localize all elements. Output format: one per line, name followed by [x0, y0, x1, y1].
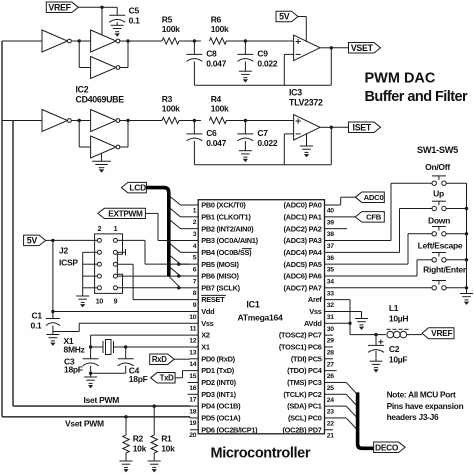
- svg-text:5: 5: [193, 255, 197, 262]
- svg-text:40: 40: [327, 208, 335, 215]
- svg-text:8MHz: 8MHz: [64, 345, 85, 355]
- svg-text:36: 36: [327, 255, 335, 262]
- svg-text:C9: C9: [257, 49, 268, 59]
- svg-text:Vss: Vss: [309, 307, 321, 316]
- svg-text:C5: C5: [129, 6, 140, 16]
- svg-text:Microcontroller: Microcontroller: [211, 446, 311, 462]
- svg-text:ATmega164: ATmega164: [237, 313, 283, 323]
- svg-text:0.1: 0.1: [129, 15, 141, 25]
- svg-text:11: 11: [190, 326, 197, 333]
- svg-text:TxD: TxD: [160, 374, 175, 383]
- svg-text:AVdd: AVdd: [304, 319, 322, 328]
- svg-text:20: 20: [189, 432, 197, 439]
- svg-text:PB3 (OC0A/AIN1): PB3 (OC0A/AIN1): [201, 236, 258, 245]
- svg-text:28: 28: [327, 349, 335, 356]
- svg-text:32: 32: [327, 302, 335, 309]
- svg-text:0.047: 0.047: [206, 59, 226, 69]
- svg-text:LCD: LCD: [129, 183, 146, 193]
- svg-text:(ADC1) PA1: (ADC1) PA1: [283, 212, 321, 221]
- svg-text:PB5 (MOSI): PB5 (MOSI): [201, 260, 239, 269]
- svg-text:PD3 (INT1): PD3 (INT1): [201, 390, 236, 399]
- svg-text:6: 6: [193, 266, 197, 273]
- svg-text:18: 18: [189, 408, 197, 415]
- svg-text:(SDA) PC1: (SDA) PC1: [287, 402, 322, 411]
- svg-text:(ADC7) PA7: (ADC7) PA7: [283, 283, 321, 292]
- svg-text:(TOSC1) PC6: (TOSC1) PC6: [279, 343, 322, 352]
- svg-text:33: 33: [327, 290, 335, 297]
- svg-text:5V: 5V: [279, 12, 290, 22]
- svg-text:10k: 10k: [133, 444, 147, 454]
- svg-text:14: 14: [189, 361, 197, 368]
- svg-text:Iset PWM: Iset PWM: [84, 395, 120, 405]
- svg-text:10µH: 10µH: [389, 314, 409, 324]
- svg-text:VSET: VSET: [351, 43, 374, 53]
- svg-text:21: 21: [327, 432, 335, 439]
- svg-text:R1: R1: [161, 434, 172, 444]
- svg-text:PB1 (CLKO/T1): PB1 (CLKO/T1): [201, 212, 251, 221]
- svg-text:Vset PWM: Vset PWM: [65, 419, 104, 429]
- svg-text:Vdd: Vdd: [201, 307, 215, 316]
- svg-text:CFB: CFB: [366, 213, 382, 222]
- svg-text:IC3: IC3: [289, 88, 302, 98]
- svg-text:17: 17: [189, 397, 197, 404]
- svg-text:RxD: RxD: [152, 355, 167, 364]
- svg-text:X1: X1: [201, 343, 210, 352]
- svg-text:CD4069UBE: CD4069UBE: [76, 95, 125, 105]
- svg-text:4: 4: [193, 243, 197, 250]
- svg-text:(ADC6) PA6: (ADC6) PA6: [283, 272, 321, 281]
- svg-text:Vss: Vss: [201, 319, 213, 328]
- svg-text:(ADC3) PA3: (ADC3) PA3: [283, 236, 321, 245]
- svg-text:22: 22: [327, 420, 335, 427]
- svg-text:38: 38: [327, 231, 335, 238]
- svg-text:Left/Escape: Left/Escape: [418, 241, 463, 251]
- svg-text:PB2 (INT2/AIN0): PB2 (INT2/AIN0): [201, 224, 254, 233]
- svg-text:(TDO) PC4: (TDO) PC4: [287, 366, 323, 375]
- svg-text:(SCL) PC0: (SCL) PC0: [288, 414, 322, 423]
- svg-text:PD5 (OC1A): PD5 (OC1A): [201, 414, 241, 423]
- svg-text:C7: C7: [257, 128, 268, 138]
- svg-text:0.1: 0.1: [31, 321, 43, 331]
- svg-text:10: 10: [189, 314, 197, 321]
- svg-text:10k: 10k: [161, 444, 175, 454]
- svg-text:(ADC2) PA2: (ADC2) PA2: [283, 224, 321, 233]
- svg-text:ICSP: ICSP: [59, 258, 78, 268]
- svg-text:Buffer and Filter: Buffer and Filter: [365, 89, 469, 105]
- svg-text:L1: L1: [389, 303, 399, 313]
- svg-text:1: 1: [114, 226, 118, 233]
- svg-text:PB4 (OC0B/SS): PB4 (OC0B/SS): [201, 248, 252, 257]
- svg-text:VREF: VREF: [48, 2, 71, 12]
- svg-text:X2: X2: [201, 331, 210, 340]
- svg-text:18pF: 18pF: [129, 374, 148, 384]
- svg-text:PB0 (XCK/T0): PB0 (XCK/T0): [201, 201, 246, 210]
- svg-text:10: 10: [96, 299, 104, 306]
- svg-text:PWM DAC: PWM DAC: [365, 71, 436, 87]
- svg-text:9: 9: [193, 302, 197, 309]
- svg-text:Pins have expansion: Pins have expansion: [387, 401, 464, 411]
- svg-text:PD0 (RxD): PD0 (RxD): [201, 354, 235, 363]
- svg-text:C2: C2: [389, 344, 400, 354]
- svg-text:12: 12: [189, 337, 197, 344]
- svg-text:PD1 (TxD): PD1 (TxD): [201, 366, 235, 375]
- svg-text:Right/Enter: Right/Enter: [423, 265, 467, 275]
- svg-text:13: 13: [189, 349, 197, 356]
- svg-text:(OC2B) PD7: (OC2B) PD7: [283, 425, 322, 434]
- svg-text:SW1-SW5: SW1-SW5: [417, 145, 458, 155]
- svg-text:19: 19: [189, 420, 197, 427]
- svg-text:3: 3: [193, 231, 197, 238]
- svg-text:On/Off: On/Off: [425, 162, 450, 172]
- svg-text:VREF: VREF: [431, 328, 452, 338]
- svg-text:100k: 100k: [162, 103, 180, 113]
- svg-text:TLV2372: TLV2372: [289, 98, 323, 108]
- svg-text:100k: 100k: [162, 24, 180, 34]
- svg-text:10µF: 10µF: [389, 355, 408, 365]
- svg-text:25: 25: [327, 385, 335, 392]
- svg-text:(ADC5) PA5: (ADC5) PA5: [283, 260, 321, 269]
- svg-text:39: 39: [327, 219, 335, 226]
- svg-text:Aref: Aref: [308, 295, 322, 304]
- svg-text:16: 16: [189, 385, 197, 392]
- svg-text:30: 30: [327, 326, 335, 333]
- svg-text:Note: All MCU Port: Note: All MCU Port: [387, 390, 456, 400]
- svg-text:27: 27: [327, 361, 335, 368]
- svg-text:J2: J2: [59, 246, 68, 256]
- svg-text:headers J3-J6: headers J3-J6: [387, 412, 439, 422]
- svg-text:ADC0: ADC0: [364, 193, 384, 202]
- svg-text:23: 23: [327, 409, 335, 416]
- svg-text:PB7 (SCLK): PB7 (SCLK): [201, 283, 240, 292]
- svg-text:9: 9: [114, 299, 118, 306]
- svg-text:C6: C6: [206, 128, 217, 138]
- svg-text:0.047: 0.047: [206, 138, 226, 148]
- svg-text:PB6 (MISO): PB6 (MISO): [201, 272, 239, 281]
- svg-text:7: 7: [193, 278, 197, 285]
- svg-text:Down: Down: [428, 215, 450, 225]
- svg-text:PD4 (OC1B): PD4 (OC1B): [201, 402, 241, 411]
- svg-text:(TOSC2) PC7: (TOSC2) PC7: [279, 331, 322, 340]
- svg-text:29: 29: [327, 338, 335, 345]
- svg-text:PD6 (OC2B/ICP1): PD6 (OC2B/ICP1): [201, 425, 258, 434]
- svg-text:31: 31: [327, 314, 335, 321]
- svg-text:R2: R2: [133, 434, 144, 444]
- svg-text:2: 2: [98, 226, 102, 233]
- svg-text:34: 34: [327, 278, 335, 285]
- svg-text:15: 15: [189, 373, 197, 380]
- svg-text:35: 35: [327, 267, 335, 274]
- svg-text:RESET: RESET: [201, 295, 225, 304]
- svg-text:(TCLK) PC2: (TCLK) PC2: [283, 390, 321, 399]
- svg-text:C8: C8: [206, 49, 217, 59]
- svg-text:5V: 5V: [27, 236, 38, 246]
- svg-text:2: 2: [193, 219, 197, 226]
- svg-text:IC1: IC1: [246, 300, 259, 310]
- svg-text:(ADC4) PA4: (ADC4) PA4: [283, 248, 322, 257]
- svg-text:24: 24: [327, 397, 335, 404]
- svg-text:8: 8: [193, 290, 197, 297]
- svg-text:DECO: DECO: [375, 442, 399, 452]
- svg-text:ISET: ISET: [353, 122, 372, 132]
- svg-text:100k: 100k: [211, 103, 229, 113]
- svg-text:(TDI) PC5: (TDI) PC5: [291, 354, 322, 363]
- svg-text:26: 26: [327, 373, 335, 380]
- svg-text:Up: Up: [433, 189, 444, 199]
- svg-text:100k: 100k: [211, 24, 229, 34]
- svg-text:IC2: IC2: [76, 85, 89, 95]
- svg-text:EXTPWM: EXTPWM: [108, 209, 143, 218]
- svg-text:(TMS) PC3: (TMS) PC3: [287, 378, 322, 387]
- svg-text:18pF: 18pF: [64, 364, 83, 374]
- svg-text:37: 37: [327, 243, 335, 250]
- svg-text:1: 1: [193, 207, 197, 214]
- svg-text:PD2 (INT0): PD2 (INT0): [201, 378, 236, 387]
- svg-text:0.022: 0.022: [257, 59, 277, 69]
- svg-text:(ADC0) PA0: (ADC0) PA0: [283, 201, 321, 210]
- svg-text:0.022: 0.022: [257, 138, 277, 148]
- svg-text:C1: C1: [32, 311, 43, 321]
